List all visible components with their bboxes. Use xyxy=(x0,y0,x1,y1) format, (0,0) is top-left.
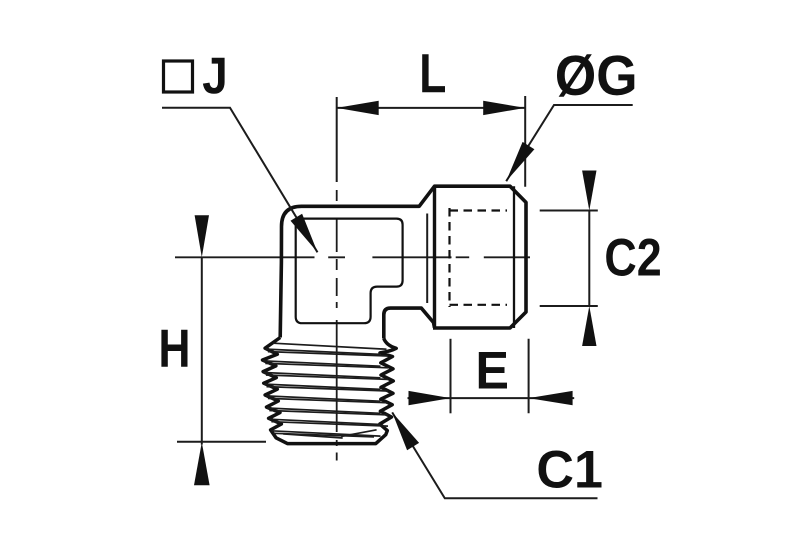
label L xyxy=(422,54,445,92)
dimension E arrow left xyxy=(409,391,451,405)
dimension L arrow right xyxy=(483,101,525,115)
dimension L line xyxy=(337,107,526,109)
label ØG leader arrow xyxy=(506,142,534,181)
label E xyxy=(479,352,507,389)
label C1 leader arrow xyxy=(392,412,419,450)
label J xyxy=(203,58,225,94)
male taper thread silhouette (zigzag crests) xyxy=(263,338,397,444)
label □J square symbol xyxy=(164,61,193,92)
elbow body outer outline xyxy=(280,186,526,338)
dimension H extension line bottom xyxy=(177,441,266,443)
dimension H arrow top xyxy=(195,215,209,257)
dimension E arrow right xyxy=(529,391,573,405)
label □J leader line xyxy=(162,108,318,253)
dimension H arrow bottom xyxy=(194,442,210,485)
label □J leader arrow xyxy=(291,214,318,253)
label C2 xyxy=(606,238,660,276)
body inner bore outline xyxy=(296,219,403,324)
female thread hidden lines (dashed) xyxy=(450,208,508,307)
centerline horizontal axis of female port xyxy=(175,256,530,258)
body edge line behind nut xyxy=(426,214,428,304)
label C1 leader line xyxy=(392,412,597,498)
centerline vertical axis of male port xyxy=(336,190,338,461)
dimension E extension line left xyxy=(450,339,452,414)
label ØG leader line xyxy=(506,105,633,181)
male thread helix lines xyxy=(263,343,388,438)
dimension C2 extension line bottom xyxy=(540,305,598,307)
dimension H line xyxy=(201,257,203,444)
dimension C2 arrow top xyxy=(582,171,596,211)
hex nut left face edge xyxy=(433,186,436,327)
dimension C2 arrow bottom xyxy=(582,306,596,346)
dimension L extension line right xyxy=(524,96,526,187)
dimension E line xyxy=(408,397,575,399)
dimension L arrow left xyxy=(337,101,379,115)
label H xyxy=(161,330,187,367)
label C1 xyxy=(539,450,602,488)
label ØG xyxy=(557,54,634,97)
dimension L extension line left xyxy=(336,97,338,182)
hex nut chamfer tangent line xyxy=(513,186,515,328)
dimension C2 line xyxy=(588,211,590,307)
dimension C2 extension line top xyxy=(540,210,598,212)
dimension E extension line right xyxy=(528,339,530,414)
